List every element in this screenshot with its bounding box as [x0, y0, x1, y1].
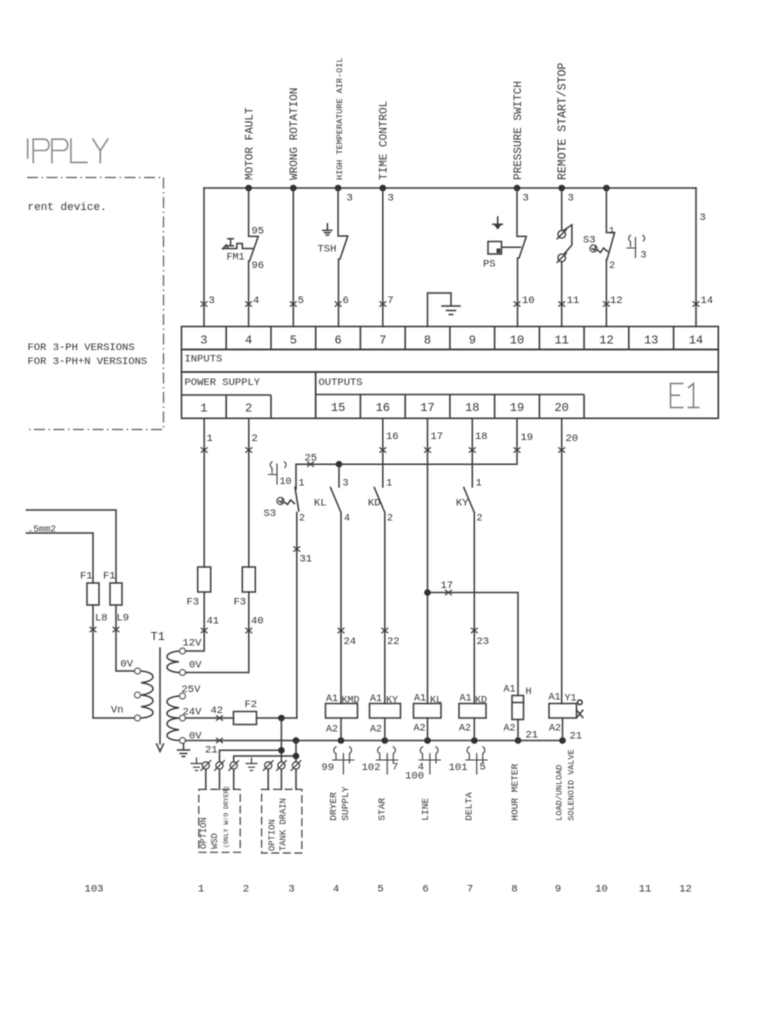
svg-text:2: 2	[299, 514, 305, 525]
svg-text:40: 40	[251, 616, 264, 628]
wire Y1 A2 to bus	[562, 718, 564, 741]
wire 16 with contact KD	[374, 418, 385, 703]
svg-text:WRONG ROTATION: WRONG ROTATION	[289, 88, 301, 180]
wire 18 with contact KY	[464, 418, 475, 703]
svg-text:A2: A2	[370, 725, 382, 736]
svg-text:5: 5	[377, 884, 383, 896]
secondary terminal 0V bottom	[180, 738, 186, 744]
wire marker X above terminal 11	[558, 301, 565, 306]
wire marker X above terminal 4	[245, 301, 252, 306]
svg-text:99: 99	[321, 762, 334, 774]
svg-text:H: H	[526, 687, 532, 698]
svg-text:4: 4	[245, 334, 252, 348]
svg-text:L9: L9	[117, 613, 130, 625]
svg-text:8: 8	[511, 884, 517, 896]
remote link terminal lower	[557, 253, 567, 263]
node KY A2	[382, 737, 389, 744]
svg-text:A1: A1	[326, 694, 338, 705]
svg-text:95: 95	[252, 226, 265, 238]
wire marker X above terminal 5	[290, 301, 297, 306]
svg-text:FOR 3-PH VERSIONS: FOR 3-PH VERSIONS	[28, 342, 135, 354]
wire marker X 42	[216, 715, 223, 720]
node 24V/21 branch	[278, 715, 285, 722]
svg-text:A1: A1	[460, 694, 472, 705]
svg-text:A2: A2	[326, 725, 338, 736]
primary terminal Vn	[135, 715, 141, 721]
pin 3 of option box 1	[228, 760, 239, 771]
node on bus at S3	[603, 185, 610, 192]
connector pin 3 beside S3	[627, 235, 645, 258]
wire marker X on L8	[90, 627, 97, 632]
svg-text:3: 3	[568, 193, 574, 205]
svg-text:6: 6	[334, 334, 341, 348]
branch 0V to option boxes	[234, 741, 296, 762]
svg-text:HOUR METER: HOUR METER	[510, 763, 521, 820]
fuse F1a	[87, 583, 99, 605]
S3 actuator circle with check	[590, 245, 597, 252]
fuse F3a	[198, 567, 211, 592]
wire bus left end down to terminal 3	[203, 188, 205, 327]
wire 25 from terminal 19	[296, 418, 517, 486]
svg-text:SUPPLY: SUPPLY	[340, 786, 351, 821]
svg-text:1: 1	[207, 433, 213, 445]
svg-text:WSD: WSD	[210, 833, 220, 849]
node KL branch on wire 25	[336, 461, 343, 468]
svg-text:F1: F1	[80, 571, 93, 583]
primary terminal middle	[135, 692, 141, 698]
wire: mains line to primary 0V	[26, 510, 116, 583]
contact TSH (high temperature)	[338, 188, 348, 327]
coil KMD	[326, 704, 358, 719]
svg-text:1: 1	[476, 479, 482, 490]
wire terminal 2 down to F3b and 0V	[186, 418, 249, 672]
svg-text:103: 103	[85, 884, 104, 896]
svg-text:0V: 0V	[120, 659, 133, 671]
pin 1 of option box 1	[201, 760, 212, 771]
svg-text:A1: A1	[370, 694, 382, 705]
dash-dot note box	[27, 178, 164, 430]
remote start/stop link contacts	[562, 188, 572, 327]
svg-text:TSH: TSH	[318, 244, 337, 256]
svg-text:5: 5	[298, 295, 304, 307]
svg-text:41: 41	[207, 616, 220, 628]
svg-text:FM1: FM1	[227, 253, 245, 264]
svg-text:3: 3	[343, 479, 349, 490]
svg-text:LOAD/UNLOAD: LOAD/UNLOAD	[555, 765, 565, 821]
svg-text:S3: S3	[264, 508, 277, 520]
svg-text:10: 10	[510, 334, 524, 348]
svg-text:Y1: Y1	[565, 694, 577, 705]
secondary terminal 24V	[180, 715, 186, 721]
svg-text:1: 1	[609, 227, 615, 238]
svg-text:14: 14	[689, 334, 703, 348]
svg-text:Vn: Vn	[111, 705, 124, 717]
svg-text:2: 2	[387, 514, 393, 525]
contact PS (pressure switch)	[517, 188, 526, 327]
svg-text:SOLENOID VALVE: SOLENOID VALVE	[567, 749, 577, 820]
bottom reference numbers row	[85, 884, 692, 896]
wire marker X above terminal 14	[693, 301, 700, 306]
svg-text:KD: KD	[475, 696, 487, 707]
svg-text:18: 18	[465, 401, 479, 415]
svg-text:12: 12	[610, 295, 623, 307]
contact S3 upper (remote selector)	[606, 188, 614, 327]
svg-text:12: 12	[599, 334, 613, 348]
contact S3 lower	[295, 488, 299, 719]
node on bus at pressure switch	[514, 185, 521, 192]
node on bus at remote start/stop	[558, 185, 565, 192]
wire wrong rotation down to terminal 5	[292, 188, 294, 327]
svg-text:2: 2	[245, 402, 252, 416]
pin 4 of option box 2	[263, 760, 274, 771]
coil KY	[370, 704, 401, 719]
svg-text:102: 102	[362, 762, 381, 774]
coil Y1 solenoid	[549, 704, 577, 719]
node H A2	[515, 737, 522, 744]
svg-text:REMOTE START/STOP: REMOTE START/STOP	[557, 63, 570, 180]
wire marker X 31	[293, 546, 300, 551]
wire marker X 24	[338, 628, 345, 633]
svg-text:(ONLY W/O DRYER): (ONLY W/O DRYER)	[223, 786, 230, 848]
svg-text:96: 96	[252, 260, 265, 272]
svg-text:3: 3	[288, 884, 294, 896]
svg-text:STAR: STAR	[377, 798, 388, 821]
svg-text:15: 15	[331, 401, 345, 415]
wire 20 to Y1	[561, 418, 563, 703]
transformer secondary winding 12V/0V	[167, 651, 179, 673]
wire marker X wire 16	[379, 447, 386, 452]
svg-text:3: 3	[388, 193, 394, 205]
top supply bus (net 3)	[204, 187, 696, 189]
svg-text:19: 19	[521, 432, 534, 444]
wire marker X wire 20	[558, 447, 565, 452]
svg-text:LINE: LINE	[420, 798, 431, 821]
contact FM1 (motor overload 95/96)	[249, 188, 259, 327]
svg-text:KY: KY	[456, 498, 469, 510]
0V / A2 bus (net 21)	[186, 740, 563, 742]
svg-text:17: 17	[420, 401, 434, 415]
wire time control down to terminal 7	[382, 188, 384, 327]
node 21 pins branch	[278, 747, 285, 754]
power terminal numbers 1-2	[200, 402, 252, 416]
svg-text:KD: KD	[368, 498, 381, 510]
fuse F1b	[110, 583, 122, 605]
node KD A2	[471, 737, 478, 744]
ground at option box 1	[191, 758, 203, 771]
wire marker X above terminal 12	[603, 301, 610, 306]
svg-text:2: 2	[609, 261, 615, 272]
svg-text:5: 5	[480, 762, 486, 774]
connector pins at dryer supply output	[332, 747, 355, 775]
connector pin 10 at S3	[268, 462, 286, 485]
secondary terminal 25V	[180, 693, 186, 699]
svg-text:A1: A1	[414, 694, 426, 705]
node on bus at time control	[380, 185, 387, 192]
svg-text:4: 4	[344, 514, 350, 525]
svg-text:21: 21	[570, 731, 583, 743]
wire marker X on 0V bus	[216, 738, 223, 743]
svg-text:3: 3	[347, 193, 353, 205]
svg-text:9: 9	[555, 884, 561, 896]
node 0V drop	[293, 737, 300, 744]
svg-text:9: 9	[469, 334, 476, 348]
ground below secondary 0V	[178, 744, 190, 757]
svg-text:2: 2	[477, 514, 483, 525]
remote link terminal upper	[557, 229, 567, 239]
pin 5 of option box 2	[276, 760, 287, 771]
svg-text:16: 16	[376, 401, 390, 415]
wires pins into box 1	[206, 769, 234, 789]
svg-text:8: 8	[424, 334, 431, 348]
wire marker X above terminal 3	[201, 301, 208, 306]
svg-text:7: 7	[379, 334, 386, 348]
wire marker X wire 2	[245, 447, 252, 452]
wire terminal 1 down to F3a and 12V	[186, 418, 205, 651]
wire marker X wire 17	[424, 447, 431, 452]
option box 2 (tank drain)	[262, 789, 302, 853]
svg-text:F2: F2	[245, 699, 258, 711]
hour meter H	[512, 696, 524, 720]
svg-text:10: 10	[522, 295, 535, 307]
svg-text:3: 3	[523, 193, 529, 205]
svg-text:F3: F3	[187, 597, 200, 609]
svg-text:17: 17	[431, 431, 444, 443]
wire 17 to KL coil with branch to hour meter	[428, 418, 519, 703]
svg-text:25: 25	[305, 453, 318, 465]
title text fragment "PPLY" (cut-off SUPPLY)	[28, 139, 108, 162]
svg-text:13: 13	[644, 334, 658, 348]
svg-text:OPTION: OPTION	[199, 817, 209, 849]
svg-text:L8: L8	[95, 613, 108, 625]
svg-text:1: 1	[200, 402, 207, 416]
svg-text:T1: T1	[151, 630, 165, 644]
pin 2 of option box 1	[214, 760, 225, 771]
svg-text:31: 31	[300, 554, 313, 566]
svg-text:A2: A2	[549, 724, 561, 735]
ground at option box 2	[246, 758, 258, 771]
wire bus right end down to terminal 14	[695, 188, 697, 327]
wire marker X above terminal 10	[514, 301, 521, 306]
node KMD A2	[338, 737, 345, 744]
designator E1 (stick letters)	[671, 384, 700, 408]
wire: below fuse F1a to transformer Vn terminal	[93, 605, 135, 718]
svg-text:7: 7	[387, 295, 393, 307]
wire KY A2 to bus	[384, 718, 386, 741]
wire KMD A2 to bus	[340, 718, 342, 741]
svg-text:A2: A2	[414, 724, 426, 735]
svg-text:20: 20	[566, 433, 579, 445]
svg-text:HIGH TEMPERATURE AIR-OIL: HIGH TEMPERATURE AIR-OIL	[335, 58, 345, 180]
wire marker X wire 19	[514, 447, 521, 452]
svg-text:3: 3	[200, 334, 207, 348]
svg-text:7: 7	[467, 884, 473, 896]
wire 24V through F2 to S3 column	[186, 717, 297, 719]
node branch 17	[424, 589, 431, 596]
svg-text:FOR 3-PH+N VERSIONS: FOR 3-PH+N VERSIONS	[28, 356, 148, 368]
transformer primary winding	[141, 671, 153, 718]
INPUTS band	[182, 350, 719, 373]
svg-text:TIME CONTROL: TIME CONTROL	[379, 101, 391, 180]
wire marker X above terminal 7	[379, 301, 386, 306]
svg-text:KL: KL	[314, 498, 327, 510]
fuse F3b	[242, 567, 255, 592]
svg-text:20: 20	[554, 401, 568, 415]
POWER SUPPLY box	[182, 372, 316, 418]
svg-text:KY: KY	[386, 696, 398, 707]
contact KL (star contactor aux)	[331, 464, 342, 703]
svg-text:KMD: KMD	[342, 696, 360, 707]
svg-text:18: 18	[475, 431, 488, 443]
svg-text:6: 6	[422, 884, 428, 896]
svg-text:OPTION: OPTION	[268, 819, 278, 851]
svg-text:A2: A2	[459, 724, 471, 735]
svg-text:14: 14	[701, 295, 714, 307]
svg-text:A2: A2	[504, 724, 516, 735]
svg-text:3: 3	[700, 212, 706, 224]
terminal numbers 3-14	[200, 334, 703, 348]
controller block E1: input terminal row 3-14	[182, 327, 719, 350]
node on bus at wrong rotation	[290, 185, 297, 192]
svg-text:21: 21	[205, 745, 218, 757]
svg-text:DELTA: DELTA	[464, 792, 475, 821]
svg-text:10: 10	[280, 477, 292, 488]
primary terminal 0V	[135, 668, 141, 674]
node on bus at high temperature	[335, 185, 342, 192]
wire marker X wire 18	[469, 447, 476, 452]
svg-text:S3: S3	[583, 235, 596, 247]
svg-text:21: 21	[526, 730, 539, 742]
svg-text:A1: A1	[549, 693, 561, 704]
connector pins at line output	[419, 747, 442, 775]
wire marker X 25	[307, 462, 314, 467]
svg-text:3: 3	[641, 251, 647, 262]
svg-text:101: 101	[449, 762, 468, 774]
FM1 overload actuator symbol	[223, 239, 253, 249]
wire: neutral line to Vn	[26, 533, 93, 583]
svg-text:DRYER: DRYER	[328, 792, 339, 821]
svg-text:rent device.: rent device.	[28, 202, 107, 214]
svg-text:2: 2	[243, 884, 249, 896]
wire marker X 23	[471, 628, 478, 633]
svg-text:24V: 24V	[183, 707, 203, 719]
S3 lower actuator circle	[277, 497, 284, 504]
node Y1 A2	[559, 737, 566, 744]
svg-text:11: 11	[639, 884, 652, 896]
svg-text:5: 5	[290, 334, 297, 348]
svg-text:23: 23	[477, 636, 490, 648]
svg-text:16: 16	[386, 431, 399, 443]
svg-text:0V: 0V	[189, 660, 202, 672]
svg-text:2: 2	[252, 433, 258, 445]
svg-text:19: 19	[510, 401, 524, 415]
svg-text:11: 11	[567, 295, 580, 307]
svg-text:100: 100	[405, 771, 424, 783]
earth symbol at terminal 8	[442, 306, 460, 315]
node KL A2	[424, 737, 431, 744]
wire KL A2 to bus	[427, 718, 429, 741]
svg-text:INPUTS: INPUTS	[185, 354, 223, 366]
coil KD	[459, 704, 486, 719]
wire H A2 to bus	[517, 720, 519, 741]
svg-text:F3: F3	[234, 597, 247, 609]
wires pins into box 2	[268, 769, 296, 789]
svg-text:6: 6	[343, 295, 349, 307]
svg-text:10: 10	[595, 884, 608, 896]
svg-text:12V: 12V	[183, 638, 203, 650]
svg-text:12: 12	[679, 884, 692, 896]
PS actuator box	[488, 242, 521, 255]
wire marker X 17 branch	[445, 590, 452, 595]
pin 6 of option box 2	[291, 760, 302, 771]
svg-text:11: 11	[554, 334, 568, 348]
connector pins at delta output	[465, 747, 488, 775]
svg-text:1: 1	[198, 884, 204, 896]
svg-text:1: 1	[386, 479, 392, 490]
svg-text:MOTOR FAULT: MOTOR FAULT	[245, 107, 257, 180]
Y1 valve symbol	[577, 700, 583, 717]
secondary terminal 0V top	[180, 670, 186, 676]
PS pressure symbol	[493, 217, 502, 228]
branch net 21 to option boxes	[220, 718, 282, 762]
transformer core line with arrow	[157, 648, 164, 752]
wire KD A2 to bus	[473, 718, 475, 741]
wire marker X on L9	[113, 627, 120, 632]
svg-text:POWER SUPPLY: POWER SUPPLY	[185, 377, 261, 389]
svg-text:3: 3	[209, 295, 215, 307]
wire: mains line below fuse F1b to transformer 0V terminal	[116, 605, 135, 671]
svg-text:A1: A1	[504, 685, 516, 696]
wire terminal 8 to earth	[428, 293, 452, 327]
wire marker X 22	[381, 628, 388, 633]
wire marker X wire 1	[201, 447, 208, 452]
wire marker X above terminal 6	[335, 301, 342, 306]
svg-text:KL: KL	[430, 696, 442, 707]
svg-text:7: 7	[392, 762, 398, 774]
svg-text:17: 17	[441, 580, 454, 592]
svg-text:25V: 25V	[182, 684, 202, 696]
node on bus at motor fault	[245, 185, 252, 192]
svg-text:TANK DRAIN: TANK DRAIN	[279, 798, 289, 851]
transformer secondary winding 25V/24V/0V	[167, 696, 179, 741]
node 0V pins branch	[293, 753, 300, 760]
svg-text:22: 22	[387, 636, 400, 648]
svg-text:F1: F1	[103, 571, 116, 583]
svg-text:PRESSURE SWITCH: PRESSURE SWITCH	[513, 81, 525, 180]
coil KL	[414, 704, 442, 719]
svg-text:24: 24	[344, 636, 357, 648]
OUTPUTS / E1 box	[316, 372, 719, 418]
output terminal numbers 15-20	[331, 401, 569, 415]
svg-text:1: 1	[299, 479, 305, 490]
wire marker X 41	[201, 628, 208, 633]
wire marker X 40	[245, 628, 252, 633]
connector pins at star output	[376, 747, 399, 775]
svg-text:4: 4	[253, 295, 259, 307]
svg-text:OUTPUTS: OUTPUTS	[319, 377, 363, 389]
TSH thermal symbol	[323, 224, 332, 235]
svg-text:4: 4	[333, 884, 339, 896]
svg-text:PS: PS	[483, 259, 496, 271]
secondary terminal 12V	[180, 648, 186, 654]
fuse F2	[234, 712, 257, 725]
option box 1 (WSD)	[199, 789, 240, 852]
